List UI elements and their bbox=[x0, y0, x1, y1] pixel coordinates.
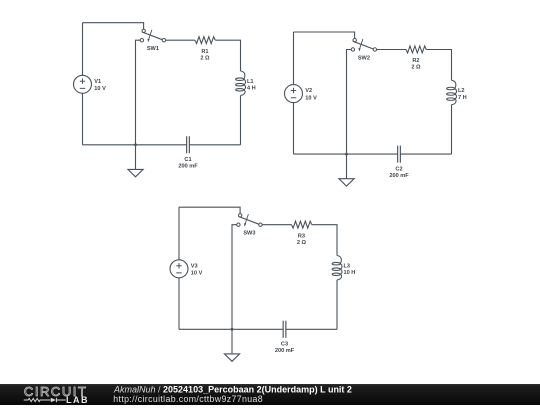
logo resistor squiggle bbox=[24, 398, 51, 401]
svg-text:AkmalNuh / 20524103_Percobaan: AkmalNuh / 20524103_Percobaan 2(Underdam… bbox=[113, 385, 352, 395]
svg-text:4 H: 4 H bbox=[247, 86, 256, 92]
inductor L1 bbox=[236, 71, 246, 95]
inductor L2 bbox=[447, 80, 457, 104]
wire bbox=[293, 103, 295, 155]
svg-text:R1: R1 bbox=[201, 49, 208, 55]
svg-text:7 H: 7 H bbox=[458, 95, 467, 101]
wire bbox=[240, 95, 242, 144]
capacitor C1 bbox=[187, 136, 190, 153]
svg-text:C3: C3 bbox=[281, 342, 288, 348]
wire bbox=[82, 93, 84, 145]
svg-text:2 Ω: 2 Ω bbox=[411, 65, 421, 71]
svg-text:10 V: 10 V bbox=[305, 95, 317, 101]
node junction bbox=[231, 328, 234, 331]
wire bbox=[262, 224, 291, 226]
wire bbox=[179, 207, 240, 213]
svg-text:10 V: 10 V bbox=[191, 271, 203, 277]
svg-text:R2: R2 bbox=[412, 58, 419, 64]
wire bbox=[312, 225, 337, 256]
svg-text:SW3: SW3 bbox=[243, 231, 255, 237]
wire bbox=[232, 225, 237, 330]
wire bbox=[293, 32, 295, 85]
wire bbox=[286, 328, 337, 330]
wire bbox=[83, 144, 187, 146]
ground bbox=[128, 145, 143, 177]
capacitor C2 bbox=[398, 146, 401, 163]
svg-text:2 Ω: 2 Ω bbox=[297, 240, 307, 246]
svg-text:V2: V2 bbox=[305, 88, 312, 94]
wire bbox=[294, 153, 398, 155]
svg-text:200 mF: 200 mF bbox=[275, 348, 295, 354]
voltage source V3 bbox=[170, 260, 188, 278]
wire bbox=[166, 39, 195, 41]
svg-text:200 mF: 200 mF bbox=[389, 173, 409, 179]
wire bbox=[178, 278, 180, 330]
svg-text:200 mF: 200 mF bbox=[178, 164, 198, 170]
svg-text:V3: V3 bbox=[191, 263, 198, 269]
wire bbox=[377, 49, 406, 51]
resistor R2 bbox=[406, 46, 426, 53]
logo diode bbox=[51, 398, 56, 403]
wire bbox=[215, 40, 240, 71]
voltage source V1 bbox=[74, 75, 92, 93]
svg-text:SW1: SW1 bbox=[147, 46, 159, 52]
wire bbox=[426, 50, 451, 81]
svg-text:10 V: 10 V bbox=[94, 86, 106, 92]
ground bbox=[224, 329, 239, 361]
wire bbox=[178, 207, 180, 260]
svg-text:C2: C2 bbox=[395, 166, 402, 172]
svg-text:C1: C1 bbox=[184, 157, 191, 163]
wire bbox=[336, 280, 338, 329]
wire bbox=[179, 328, 283, 330]
resistor R3 bbox=[292, 221, 312, 228]
wire bbox=[82, 23, 84, 76]
svg-text:http://circuitlab.com/cttbw9z7: http://circuitlab.com/cttbw9z77nua8 bbox=[113, 394, 263, 404]
resistor R1 bbox=[195, 37, 215, 44]
svg-text:R3: R3 bbox=[298, 233, 305, 239]
ground bbox=[339, 154, 354, 186]
svg-text:LAB: LAB bbox=[66, 395, 89, 405]
switch SW1 bbox=[140, 29, 165, 42]
wire bbox=[347, 50, 352, 155]
svg-text:L1: L1 bbox=[247, 79, 254, 85]
footer bar bbox=[0, 384, 540, 405]
svg-text:L3: L3 bbox=[344, 263, 351, 269]
svg-text:V1: V1 bbox=[94, 79, 101, 85]
wire bbox=[136, 40, 141, 145]
svg-text:2 Ω: 2 Ω bbox=[200, 55, 210, 61]
wire bbox=[189, 144, 240, 146]
wire bbox=[451, 105, 453, 154]
wire bbox=[294, 32, 355, 38]
capacitor C3 bbox=[283, 321, 286, 338]
voltage source V2 bbox=[285, 85, 303, 103]
svg-text:L2: L2 bbox=[458, 88, 465, 94]
inductor L3 bbox=[332, 256, 342, 280]
node junction bbox=[345, 153, 348, 156]
wire bbox=[83, 23, 144, 29]
svg-text:SW2: SW2 bbox=[358, 55, 370, 61]
svg-text:10 H: 10 H bbox=[344, 270, 356, 276]
switch SW2 bbox=[351, 38, 376, 51]
wire bbox=[400, 153, 451, 155]
node junction bbox=[134, 143, 137, 146]
switch SW3 bbox=[237, 214, 262, 227]
